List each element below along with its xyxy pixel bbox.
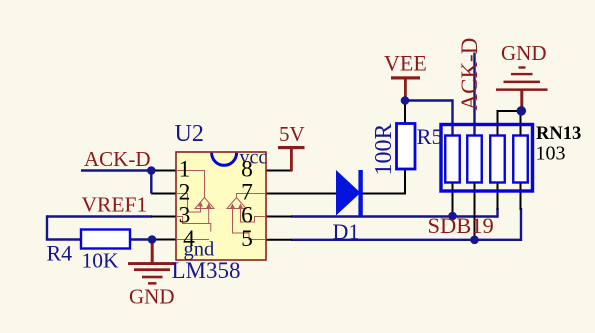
svg-text:ACK-D: ACK-D [84,147,151,171]
svg-text:GND: GND [501,41,547,65]
svg-text:U2: U2 [175,121,204,147]
svg-text:SDB19: SDB19 [428,213,494,238]
svg-text:4: 4 [183,226,195,252]
svg-text:RN13: RN13 [536,124,581,144]
svg-text:103: 103 [536,143,566,165]
svg-text:100R: 100R [371,123,397,175]
svg-text:ACK-D: ACK-D [457,38,482,111]
svg-text:D1: D1 [333,219,360,244]
svg-text:10K: 10K [82,249,120,273]
svg-text:GND: GND [129,285,175,309]
svg-text:LM358: LM358 [172,258,241,283]
svg-text:R5: R5 [417,124,443,149]
svg-text:5V: 5V [279,122,305,146]
svg-text:5: 5 [241,226,253,252]
svg-text:VREF1: VREF1 [82,193,148,217]
svg-text:R4: R4 [47,241,73,266]
svg-text:3: 3 [179,203,191,229]
svg-text:6: 6 [241,203,253,229]
svg-text:VEE: VEE [384,51,427,76]
